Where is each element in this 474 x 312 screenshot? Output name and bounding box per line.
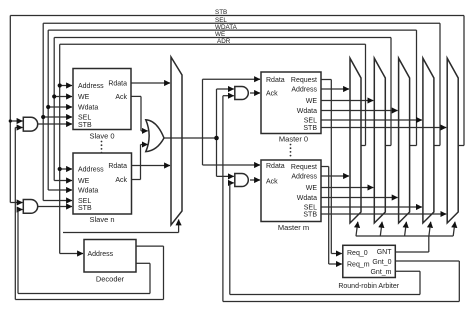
svg-text:Ack: Ack: [115, 177, 127, 184]
svg-text:WE: WE: [306, 98, 318, 105]
svg-text:WE: WE: [78, 178, 90, 185]
svg-text:STB: STB: [215, 9, 227, 16]
svg-text:Address: Address: [291, 87, 317, 94]
svg-text:Wdata: Wdata: [297, 108, 317, 115]
svg-text:Rdata: Rdata: [108, 163, 127, 170]
svg-text:Decoder: Decoder: [96, 274, 125, 283]
svg-text:GNT: GNT: [377, 249, 393, 256]
svg-text:Master 0: Master 0: [279, 135, 308, 144]
svg-text:Address: Address: [291, 174, 317, 181]
svg-text:STB: STB: [303, 125, 317, 132]
svg-text:Address: Address: [78, 167, 104, 174]
svg-text:Ack: Ack: [266, 179, 278, 186]
svg-text:SEL: SEL: [304, 205, 317, 212]
svg-text:ADR: ADR: [217, 38, 231, 45]
svg-text:STB: STB: [78, 205, 92, 212]
svg-text:SEL: SEL: [78, 115, 91, 122]
svg-text:Wdata: Wdata: [78, 105, 98, 112]
svg-text:WDATA: WDATA: [215, 24, 238, 31]
svg-text:STB: STB: [303, 212, 317, 219]
svg-text:SEL: SEL: [304, 118, 317, 125]
svg-text:Req_0: Req_0: [347, 250, 368, 257]
svg-text:Slave 0: Slave 0: [89, 131, 114, 140]
svg-text:Ack: Ack: [115, 94, 127, 101]
svg-text:Request: Request: [291, 164, 317, 171]
svg-text:Rdata: Rdata: [266, 163, 285, 170]
svg-text:Wdata: Wdata: [78, 188, 98, 195]
svg-text:Address: Address: [78, 83, 104, 90]
svg-text:Master m: Master m: [278, 223, 309, 232]
svg-text:Wdata: Wdata: [297, 195, 317, 202]
svg-text:Round-robin Arbiter: Round-robin Arbiter: [338, 283, 399, 290]
svg-text:Req_m: Req_m: [347, 262, 370, 269]
svg-text:Address: Address: [88, 251, 114, 258]
svg-text:Rdata: Rdata: [266, 77, 285, 84]
svg-text:STB: STB: [78, 122, 92, 129]
svg-text:Gnt_m: Gnt_m: [370, 269, 391, 276]
svg-text:Rdata: Rdata: [108, 81, 127, 88]
svg-text:WE: WE: [306, 185, 318, 192]
svg-text:Request: Request: [291, 77, 317, 84]
svg-text:WE: WE: [78, 94, 90, 101]
svg-text:Gnt_0: Gnt_0: [372, 259, 391, 266]
svg-text:Ack: Ack: [266, 91, 278, 98]
svg-text:Slave n: Slave n: [89, 215, 114, 224]
